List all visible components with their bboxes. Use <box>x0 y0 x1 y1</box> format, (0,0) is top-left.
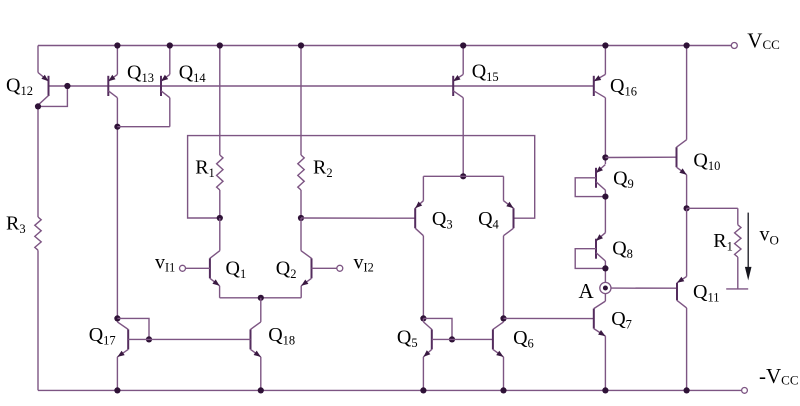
svg-text:Q6: Q6 <box>513 327 534 351</box>
svg-text:Q17: Q17 <box>89 324 116 348</box>
svg-text:Q15: Q15 <box>472 61 499 85</box>
svg-text:R1: R1 <box>713 230 733 254</box>
svg-text:Q10: Q10 <box>693 150 720 174</box>
svg-text:R1: R1 <box>195 156 215 180</box>
svg-text:vI2: vI2 <box>354 252 374 275</box>
svg-text:Q3: Q3 <box>432 208 453 232</box>
svg-text:Q8: Q8 <box>612 238 633 262</box>
svg-text:Q2: Q2 <box>276 257 297 281</box>
svg-text:Q4: Q4 <box>478 208 499 232</box>
svg-text:R2: R2 <box>313 156 333 180</box>
svg-text:Q1: Q1 <box>226 257 247 281</box>
svg-text:VCC: VCC <box>747 28 780 52</box>
svg-text:Q18: Q18 <box>268 324 295 348</box>
svg-text:vI1: vI1 <box>155 252 175 275</box>
svg-text:Q12: Q12 <box>6 75 33 99</box>
svg-text:Q5: Q5 <box>397 327 418 351</box>
svg-text:Q9: Q9 <box>613 168 634 192</box>
svg-text:R3: R3 <box>6 213 26 237</box>
svg-text:Q13: Q13 <box>127 61 154 85</box>
svg-text:A: A <box>579 279 595 303</box>
svg-text:Q16: Q16 <box>610 75 637 99</box>
svg-text:Q7: Q7 <box>611 308 632 332</box>
svg-text:Q11: Q11 <box>693 281 720 305</box>
svg-text:-VCC: -VCC <box>759 364 799 388</box>
svg-text:Q14: Q14 <box>179 61 207 85</box>
svg-text:vO: vO <box>760 224 779 248</box>
